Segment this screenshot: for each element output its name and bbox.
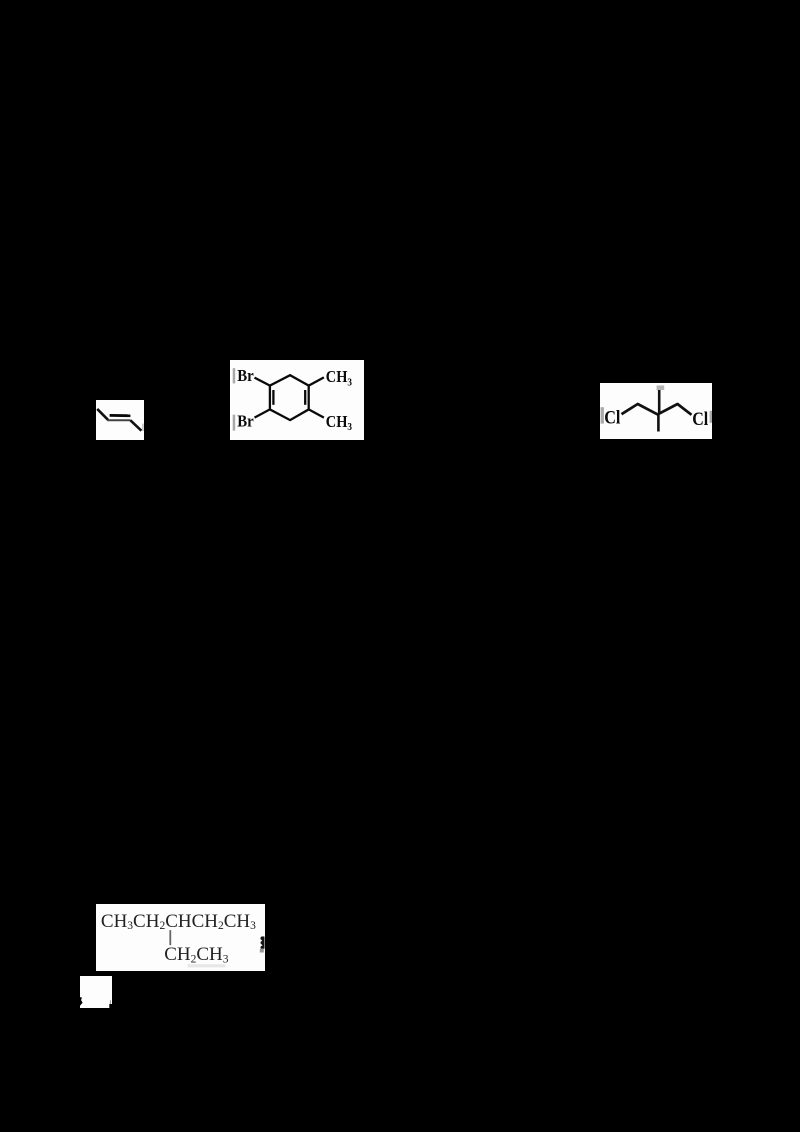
bond ring to Br (top) [255,378,270,386]
gray tick [110,1000,111,1004]
scan artifact gray bar right [710,411,712,423]
structure 1: trans-2-butene skeletal formula [96,400,144,440]
scan artifact gray tick [142,424,144,431]
double bond upper line [110,414,131,417]
benzene ring hexagon [270,375,309,420]
black notch bottom-right corner [109,1004,112,1009]
scan artifact faint smudge bottom [188,964,226,967]
bond ring to Br (bottom) [255,409,270,417]
scan artifact gray square top [657,386,665,391]
scan artifact gray bar bottom-left [233,415,236,431]
svg-text:Br: Br [237,411,254,430]
structure 2: 1,2-dibromo-4,5-dimethylbenzene [230,360,364,440]
svg-text:Cl: Cl [604,408,620,429]
svg-text:CH3CH2CHCH2CH3: CH3CH2CHCH2CH3 [101,911,256,932]
svg-text:CH3: CH3 [326,412,352,433]
methyl bond down [657,415,660,432]
scan artifact dark squiggle at right edge [260,936,264,948]
bond ring to CH3 (top) [309,377,324,385]
bond C3 to CH3 (right diagonal) [130,420,141,430]
scan artifact gray bar left [601,407,604,423]
double bond inner line right [304,390,306,405]
double bond inner line left [272,390,274,405]
bond line from CH to ethyl branch [169,930,171,945]
structure 4: 3-ethylpentane condensed formula [96,904,265,972]
svg-text:CH3: CH3 [326,367,352,388]
bond ring to CH3 (bottom) [309,409,324,417]
methyl bond up [658,389,661,414]
svg-text:CH2CH3: CH2CH3 [164,944,229,965]
bond C2-C3 lower line [108,419,131,421]
carbon zigzag Cl-CH2-C-CH2-Cl [622,404,692,415]
black notch on left edge [80,997,83,1006]
svg-text:Cl: Cl [692,409,708,430]
svg-text:Br: Br [237,366,254,385]
scan artifact: small white patch bottom-left [80,976,112,1009]
structure 3: 1,3-dichloro-2,2-dimethylpropane skeletal formula [600,383,712,439]
scan artifact gray block below squiggle [260,949,264,953]
scan artifact gray bar top-left [233,368,236,383]
bond CH3 to C2 (left diagonal) [97,409,108,420]
